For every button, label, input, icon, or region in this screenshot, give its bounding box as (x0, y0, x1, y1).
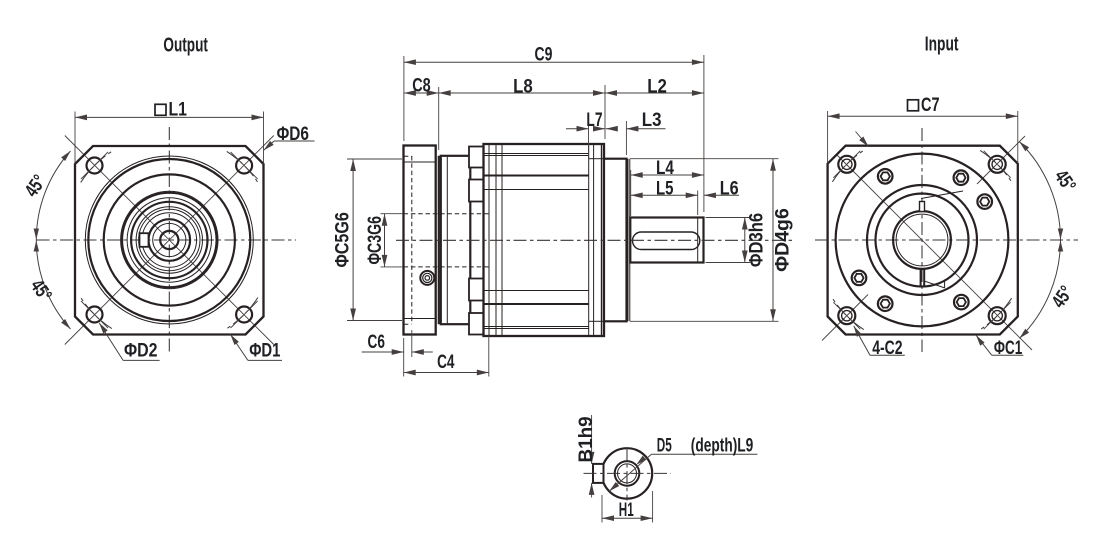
svg-text:(depth)L9: (depth)L9 (691, 435, 754, 457)
svg-text:B1h9: B1h9 (575, 416, 597, 462)
svg-text:H1: H1 (619, 499, 634, 521)
svg-text:Input: Input (925, 33, 959, 56)
svg-text:L7: L7 (586, 109, 602, 131)
svg-text:C6: C6 (368, 331, 386, 353)
svg-text:L6: L6 (720, 178, 739, 200)
svg-text:ΦC1: ΦC1 (994, 337, 1022, 359)
svg-text:L4: L4 (656, 157, 674, 179)
svg-text:ΦD1: ΦD1 (249, 339, 280, 361)
svg-text:ΦC3G6: ΦC3G6 (364, 216, 386, 265)
svg-text:4-C2: 4-C2 (872, 337, 903, 359)
svg-text:L1: L1 (169, 99, 188, 121)
svg-text:ΦC5G6: ΦC5G6 (332, 212, 354, 268)
svg-text:C4: C4 (437, 351, 455, 373)
svg-text:C7: C7 (921, 94, 940, 116)
svg-text:L2: L2 (647, 76, 667, 98)
svg-text:L8: L8 (513, 76, 533, 98)
svg-text:ΦD4g6: ΦD4g6 (772, 208, 794, 272)
svg-text:ΦD3h6: ΦD3h6 (746, 213, 768, 267)
svg-text:ΦD6: ΦD6 (277, 123, 309, 145)
svg-text:ΦD2: ΦD2 (124, 339, 158, 361)
svg-text:L3: L3 (642, 109, 662, 131)
svg-text:L5: L5 (656, 178, 674, 200)
svg-text:C9: C9 (535, 44, 553, 66)
svg-text:D5: D5 (657, 435, 672, 457)
svg-text:Output: Output (163, 33, 208, 56)
svg-text:C8: C8 (412, 75, 431, 97)
